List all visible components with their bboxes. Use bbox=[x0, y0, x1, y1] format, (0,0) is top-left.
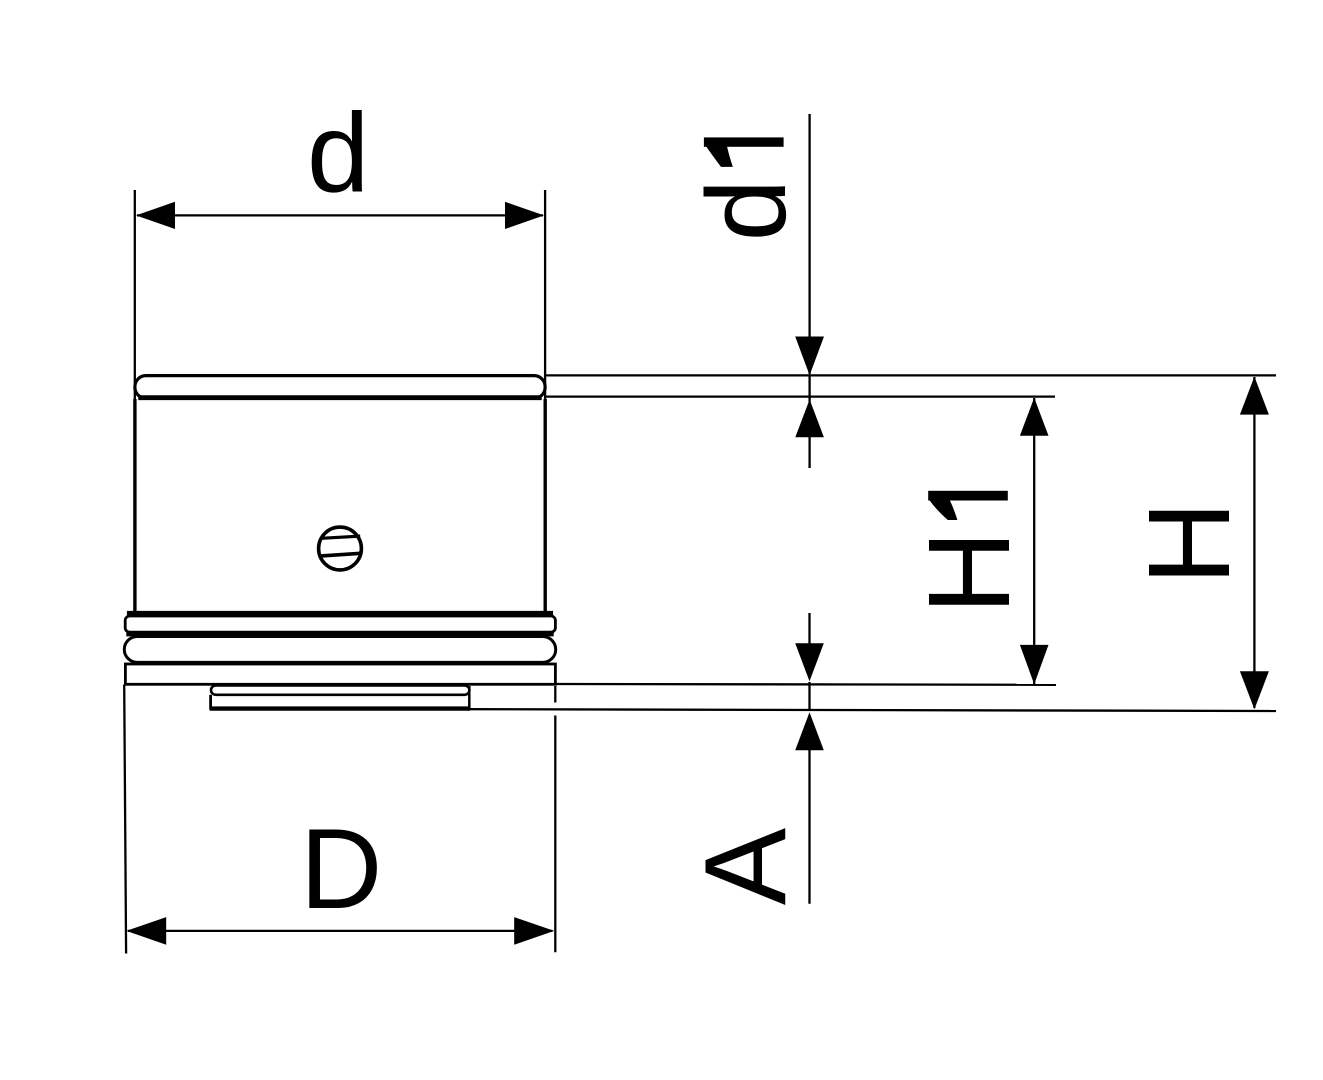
svg-text:H: H bbox=[1124, 501, 1254, 585]
svg-text:A: A bbox=[681, 827, 811, 905]
svg-text:D: D bbox=[300, 806, 382, 933]
svg-text:d: d bbox=[307, 90, 369, 215]
svg-text:d: d bbox=[684, 179, 809, 241]
svg-text:H: H bbox=[904, 531, 1034, 615]
